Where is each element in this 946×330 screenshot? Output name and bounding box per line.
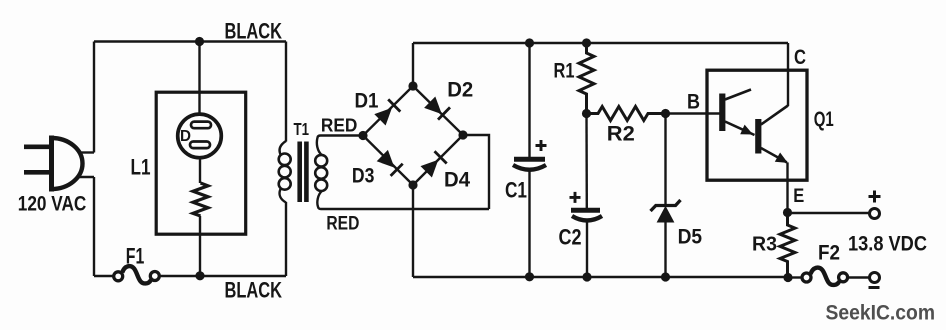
wire: bridge bottom node to bottom rail xyxy=(412,185,414,277)
node: bridge left xyxy=(358,131,367,140)
transistor Q1a base bar xyxy=(719,94,725,132)
lamp L1 neon bulb circle xyxy=(178,114,222,158)
wire: bridge top node to top rail xyxy=(412,43,414,86)
bridge edge wire D3 (left to bottom) xyxy=(363,136,413,186)
node: junction bottom rail / L1 xyxy=(195,271,204,280)
node: top rail / R1 xyxy=(582,38,591,47)
fuse F1 right terminal xyxy=(150,272,159,281)
wire: secondary bottom lead (RED) bottom run xyxy=(317,191,489,209)
svg-text:L1: L1 xyxy=(131,155,151,180)
svg-text:D4: D4 xyxy=(444,168,470,192)
wire: right vertical from transformer primary bottom xyxy=(285,202,287,276)
wire: bottom rail (DC negative) xyxy=(413,276,788,278)
transistor Q1 enclosure box xyxy=(707,70,807,180)
wire: L1 top lead from top rail into box xyxy=(198,42,200,115)
zener diode D5 cathode bar (z-bends) xyxy=(651,200,681,211)
wire: bridge right node feed (up from bottom RED run) xyxy=(463,135,489,209)
wire: L1 bottom lead to bottom rail xyxy=(199,216,201,276)
output positive terminal xyxy=(870,209,880,219)
svg-text:120 VAC: 120 VAC xyxy=(18,192,87,216)
wire: left bottom rail segment to fuse F1 xyxy=(94,275,113,277)
svg-text:R1: R1 xyxy=(554,60,575,83)
node: R2/D5/base junction xyxy=(661,109,670,118)
diode D1 triangle xyxy=(374,108,392,126)
fuse F2 left terminal xyxy=(802,273,811,282)
svg-text:SeekIC.com: SeekIC.com xyxy=(826,302,936,325)
output plus sign xyxy=(869,191,881,203)
svg-text:D5: D5 xyxy=(678,225,703,249)
wire: right vertical to transformer primary top xyxy=(285,42,287,142)
svg-text:D: D xyxy=(180,128,191,145)
wire: D5 bottom lead xyxy=(664,222,666,277)
transistor Q1a emitter arrow xyxy=(740,125,753,135)
node: bottom rail / C2 xyxy=(582,272,591,281)
svg-text:B: B xyxy=(687,91,700,114)
fuse F2 right terminal xyxy=(839,273,848,282)
capacitor C2 negative plate (curved) xyxy=(572,216,602,221)
svg-text:Q1: Q1 xyxy=(814,108,834,131)
svg-text:D3: D3 xyxy=(352,164,375,188)
bridge edge wire D4 (bottom to right) xyxy=(413,135,463,185)
transformer T1 primary lead-out curve xyxy=(280,189,286,203)
diode D1 cathode bar xyxy=(388,99,400,111)
wire: left vertical (top rail to plug upper lead) xyxy=(93,42,95,153)
wire: top rail (DC positive) xyxy=(413,42,788,44)
wire: lamp to internal resistor xyxy=(199,159,201,183)
node: bridge top xyxy=(408,81,417,90)
C2 polarity plus xyxy=(570,192,581,203)
node: bottom rail / R3 / F2 junction xyxy=(783,273,792,282)
diode D2 triangle xyxy=(424,97,442,115)
wire: secondary top lead (RED) to bridge left node xyxy=(317,136,363,156)
L1 enclosure box xyxy=(156,92,246,234)
wire: C1 top lead xyxy=(528,43,530,158)
wire: base wire to Q1 xyxy=(666,112,720,114)
node: bridge bottom xyxy=(408,180,417,189)
svg-text:R2: R2 xyxy=(607,123,635,146)
wire: left vertical (plug lower lead to bottom rail) xyxy=(93,177,95,276)
wire: C1 bottom lead xyxy=(528,170,530,277)
node: emitter junction xyxy=(783,208,792,217)
wire: plug lower lead xyxy=(77,176,94,178)
svg-text:RED: RED xyxy=(326,214,359,235)
wire: left bottom rail segment after fuse F1 xyxy=(160,275,286,277)
resistor R2 (zigzag horizontal) xyxy=(587,107,666,121)
svg-text:C1: C1 xyxy=(505,178,527,203)
diode D3 triangle xyxy=(377,150,395,168)
plug AC line cord body xyxy=(52,136,83,192)
fuse F1 element (S curve) xyxy=(122,266,151,283)
capacitor C1 negative plate (curved) xyxy=(513,165,546,170)
transistor Q1a emitter line xyxy=(725,122,755,136)
zener diode D5 triangle xyxy=(657,206,675,223)
svg-text:C: C xyxy=(794,45,806,69)
resistor R1 (zigzag) xyxy=(579,43,594,114)
fuse F2 element (S curve) xyxy=(811,268,840,285)
node: bottom rail / C1 xyxy=(525,272,534,281)
resistor R3 (zigzag) xyxy=(780,213,795,278)
node: top rail / C1 xyxy=(525,38,534,47)
diode D4 triangle xyxy=(421,160,439,178)
plug prong (upper) xyxy=(24,145,54,150)
diode D4 cathode bar xyxy=(435,151,447,163)
capacitor C1 positive plate xyxy=(514,157,545,162)
svg-text:D2: D2 xyxy=(447,78,473,102)
svg-text:D1: D1 xyxy=(355,89,379,113)
bridge edge wire D1 (left to top) xyxy=(363,86,413,136)
transistor Q1b emitter arrow xyxy=(775,153,788,163)
transistor Q1b base bar xyxy=(755,119,761,154)
transformer T1 primary winding loops xyxy=(279,154,291,166)
output minus sign xyxy=(869,286,880,289)
transformer T1 secondary winding loops xyxy=(315,155,327,167)
plug prong (lower) xyxy=(24,170,54,175)
diode D2 cathode bar xyxy=(438,107,450,119)
wire: fuse F2 to negative terminal xyxy=(848,276,869,278)
wire: emitter lead out of box xyxy=(786,162,788,212)
svg-text:F2: F2 xyxy=(818,242,840,265)
transistor Q1a collector stub xyxy=(725,90,751,100)
transformer T1 core bars xyxy=(297,142,302,203)
wire: rail to fuse F2 xyxy=(788,276,802,278)
wire: left top rail xyxy=(94,40,286,42)
svg-text:T1: T1 xyxy=(294,119,310,139)
svg-text:BLACK: BLACK xyxy=(225,19,283,44)
wire: D5 top lead xyxy=(664,114,666,206)
wire: plug upper lead xyxy=(78,151,94,153)
svg-text:RED: RED xyxy=(321,116,358,136)
wire: collector lead from top rail into box xyxy=(787,43,789,106)
lamp L1 lower electrode xyxy=(190,142,210,149)
svg-text:13.8 VDC: 13.8 VDC xyxy=(848,232,927,256)
node: bridge right xyxy=(458,130,467,139)
wire: C2 bottom lead xyxy=(586,221,588,277)
output negative terminal xyxy=(870,273,880,283)
wire: C2 top lead xyxy=(585,114,588,209)
node: R1/R2/C2 junction xyxy=(582,109,591,118)
svg-text:BLACK: BLACK xyxy=(225,278,283,303)
svg-text:R3: R3 xyxy=(752,233,777,256)
capacitor C2 positive plate xyxy=(571,208,600,213)
node: bottom rail / D5 xyxy=(661,272,670,281)
svg-text:E: E xyxy=(793,186,804,207)
diode D3 cathode bar xyxy=(391,164,403,176)
bridge edge wire D2 (top to right) xyxy=(413,86,463,135)
transistor Q1b collector line xyxy=(761,106,788,125)
lamp L1 upper electrode xyxy=(191,122,211,129)
svg-text:C2: C2 xyxy=(559,225,582,250)
resistor inside L1 (zigzag) xyxy=(193,183,208,216)
fuse F1 left terminal xyxy=(114,272,123,281)
svg-text:F1: F1 xyxy=(126,244,145,269)
transistor Q1b emitter line xyxy=(761,148,787,162)
node: junction top rail / L1 xyxy=(195,37,204,46)
C1 polarity plus xyxy=(536,140,547,151)
wire: output positive lead xyxy=(788,212,870,214)
transformer T1 primary lead-in curve xyxy=(280,141,286,155)
